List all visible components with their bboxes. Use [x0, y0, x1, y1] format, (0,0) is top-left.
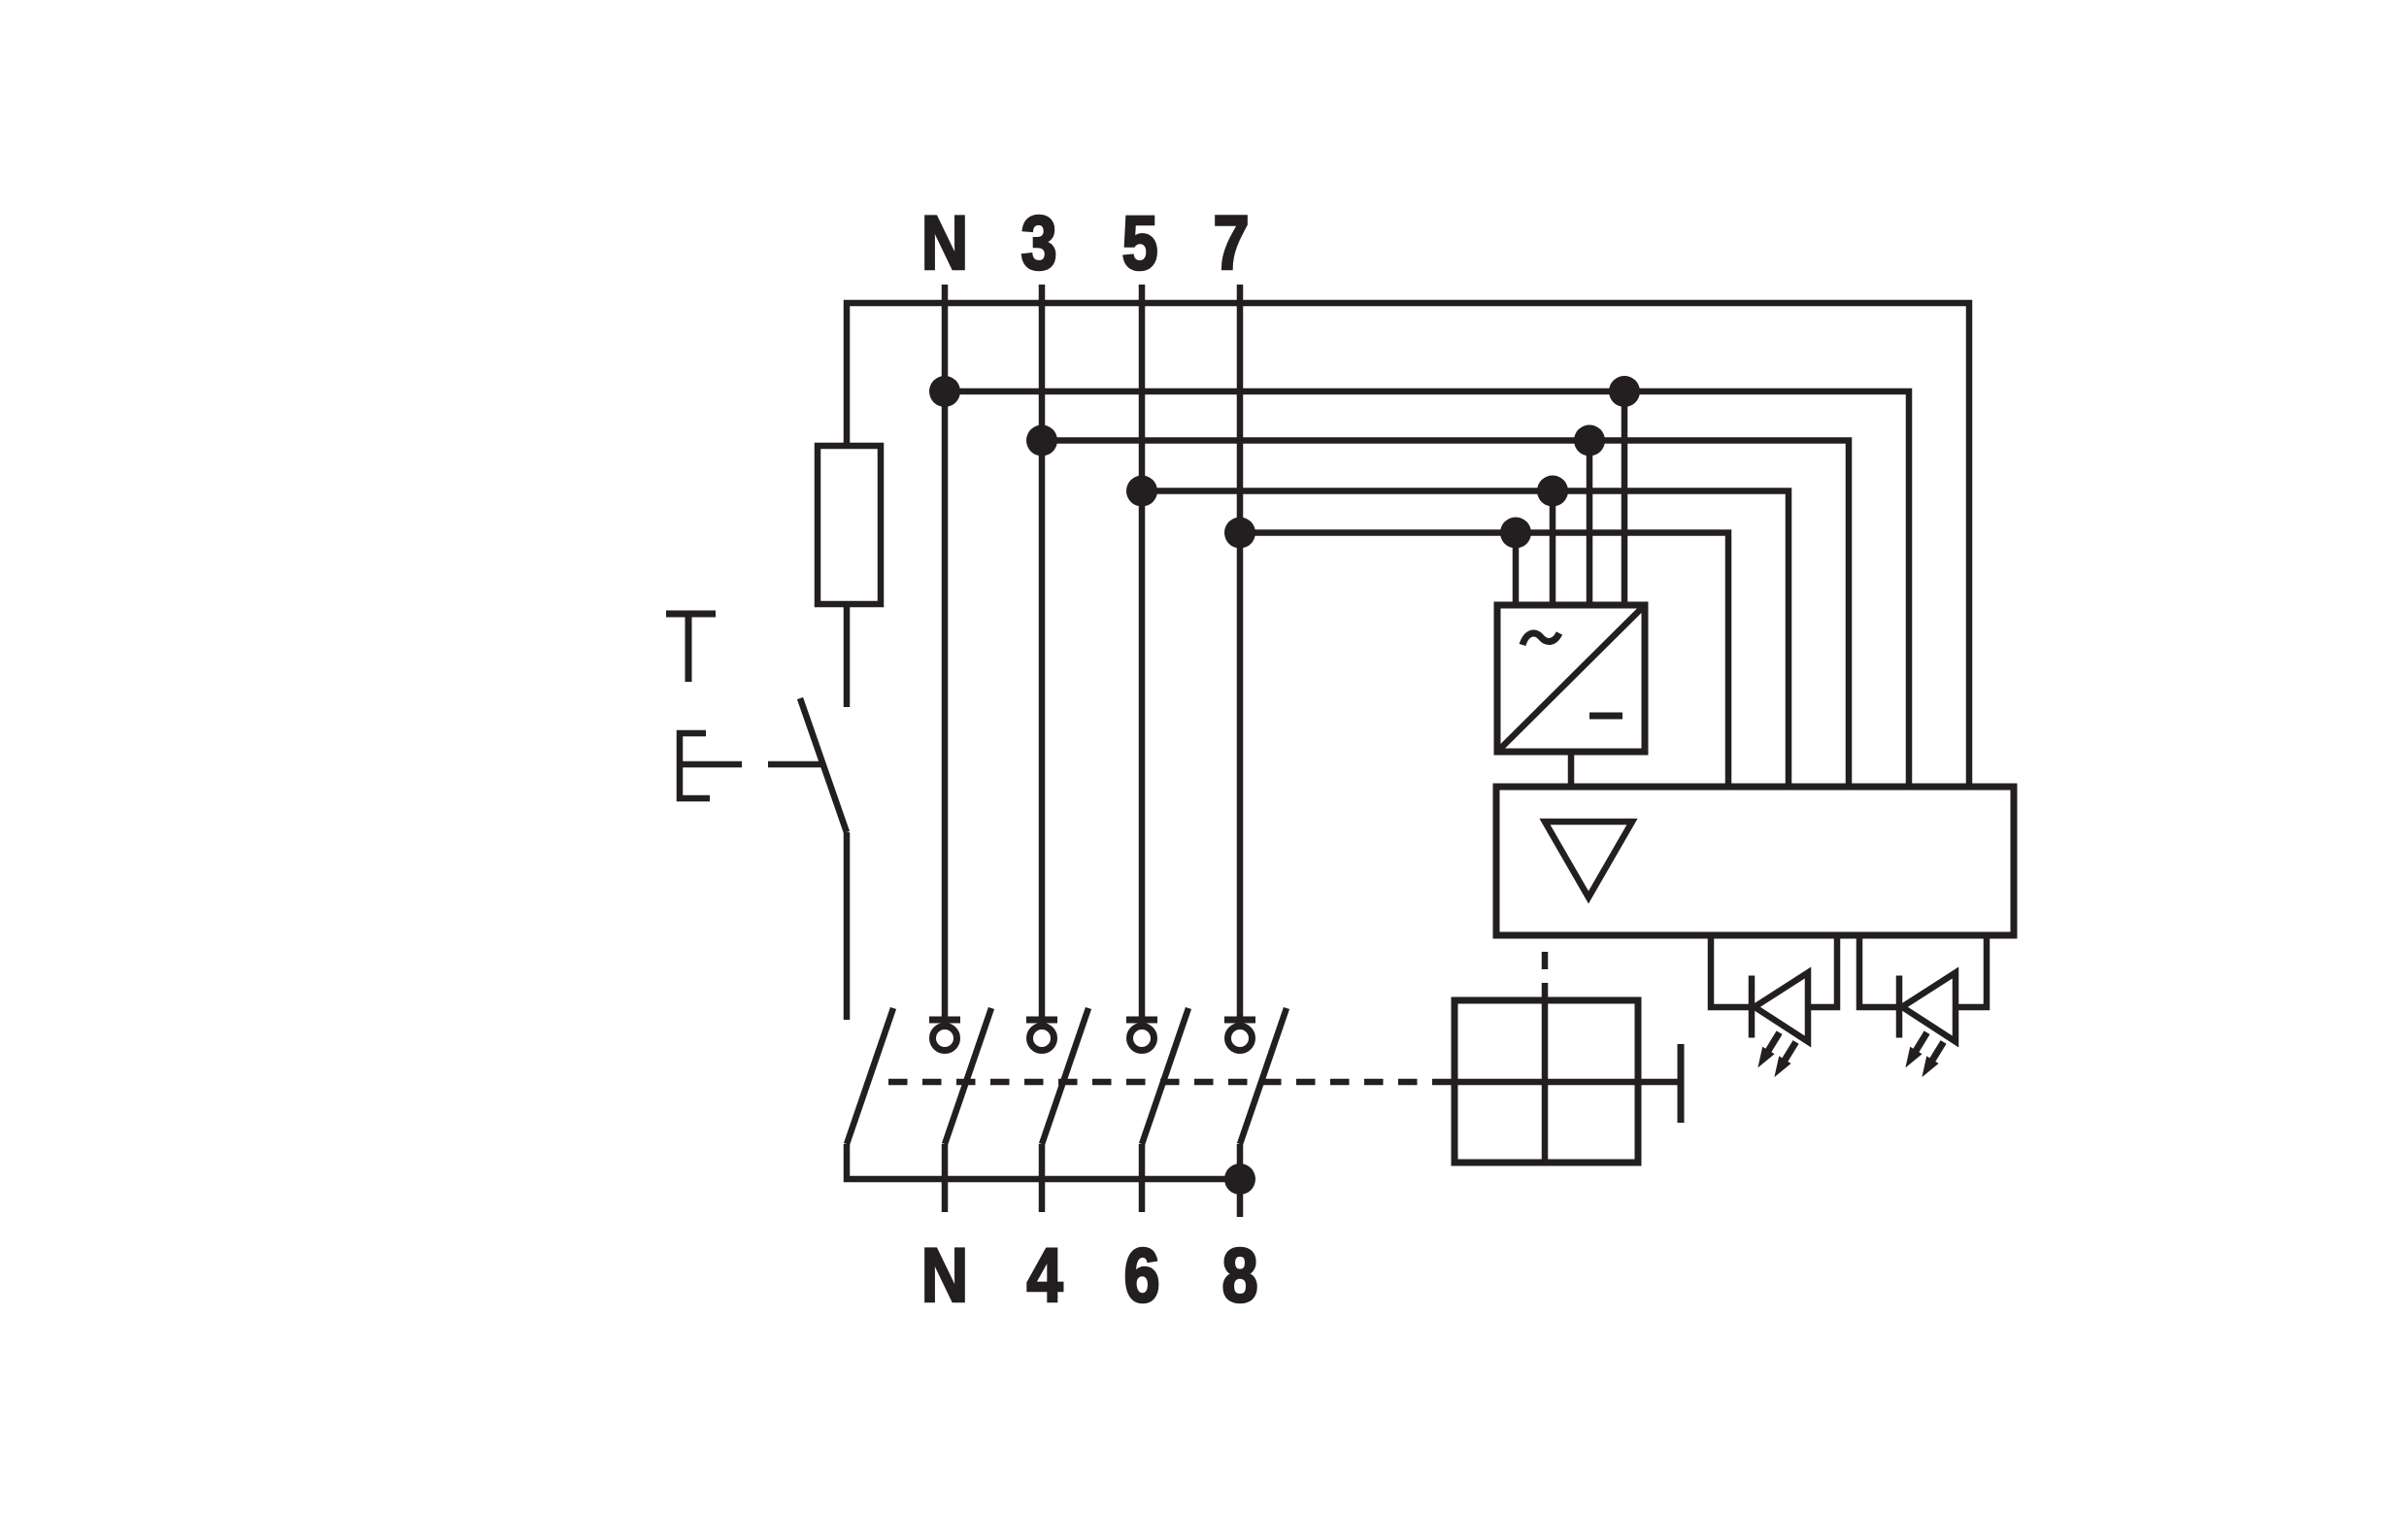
contact fixed terminal bar pole 4: [1026, 1017, 1057, 1024]
node: junction dot 3-branch to power supply tap: [1574, 425, 1605, 456]
contact terminal circle pole 6: [1130, 1027, 1154, 1051]
wire: pole 6 lower stub: [1139, 1144, 1146, 1212]
main contact: pole 8 blade: [1240, 1008, 1287, 1144]
AC symbol ~ inside power supply: [1522, 633, 1559, 645]
wire: pole 3 vertical: [1039, 285, 1046, 1020]
power supply U1 (AC/DC converter) box: [1497, 605, 1645, 752]
wire: pole 5 vertical: [1139, 285, 1146, 1020]
wire: pole 8 lower stub: [1237, 1144, 1244, 1217]
node: junction dot pole 8 bottom: [1224, 1164, 1255, 1195]
LED D2 right lead: [1955, 935, 1987, 1007]
svg-text:6: 6: [1123, 1232, 1159, 1318]
wire: tap to power supply from N branch: [1622, 391, 1628, 605]
node: junction dot 7-branch to power supply tap: [1500, 518, 1531, 549]
node: junction dot on pole 5: [1126, 476, 1157, 507]
contact terminal circle pole 8: [1228, 1027, 1253, 1051]
wire: tap to power supply from 3 branch: [1587, 441, 1593, 606]
mechanical linkage dashed line to trip coil: [888, 1079, 1439, 1086]
wire: bottom bus from test pole to pole 8 node: [847, 1144, 1240, 1179]
contact fixed terminal bar pole 8: [1224, 1017, 1255, 1024]
svg-text:4: 4: [1026, 1232, 1063, 1318]
main contact: pole 6 blade: [1142, 1008, 1188, 1144]
contact terminal circle pole N: [933, 1027, 957, 1051]
LED D2 left lead: [1859, 935, 1896, 1007]
LED D2 light arrow 1: [1905, 1032, 1926, 1067]
svg-text:3: 3: [1020, 200, 1056, 286]
trip coil horizontal divider: [1439, 1079, 1679, 1086]
wire: tap to power supply from 5 branch: [1550, 491, 1556, 606]
wire: resistor to test contact: [844, 604, 851, 707]
push-button actuator symbol: [680, 733, 710, 798]
main contact: pole 4 blade: [1042, 1008, 1088, 1144]
svg-text:N: N: [921, 200, 968, 286]
wire: branch from node 7 to amplifier: [1240, 533, 1728, 788]
wire: pole N vertical: [942, 285, 949, 1020]
LED D1 light arrow 2: [1774, 1042, 1795, 1077]
wire: branch from node N to amplifier: [945, 391, 1909, 787]
LED D1 triangle: [1755, 973, 1808, 1042]
contact fixed terminal bar pole 6: [1126, 1017, 1157, 1024]
wire: branch from node 3 to amplifier: [1042, 441, 1849, 788]
wire: pole 4 lower stub: [1039, 1144, 1046, 1212]
wire: power supply output to amplifier: [1568, 752, 1575, 787]
wire: test contact to main contact block: [844, 832, 851, 1020]
LED D2 cathode bar: [1896, 976, 1903, 1038]
svg-text:7: 7: [1213, 200, 1249, 286]
main contact: test pole blade: [847, 1008, 893, 1144]
LED D2 light arrow 2: [1922, 1042, 1943, 1077]
node: junction dot on pole N: [929, 376, 960, 407]
DC symbol - inside power supply: [1589, 713, 1622, 720]
power supply diagonal divider: [1497, 605, 1645, 752]
amplifier triangle symbol: [1545, 822, 1632, 897]
contact fixed terminal bar pole N: [929, 1017, 960, 1024]
trip coil K (square): [1455, 1000, 1638, 1163]
amplifier A1 (trip unit) box: [1496, 787, 2014, 935]
node: junction dot 5-branch to power supply tap: [1537, 476, 1568, 507]
wire: pole 7 vertical: [1237, 285, 1244, 1020]
mechanical link: actuator to test blade (dashed): [680, 761, 823, 768]
LED D1 left lead: [1711, 935, 1749, 1007]
wire: pole N lower stub: [942, 1144, 949, 1212]
label T (test button): [666, 614, 716, 682]
wire: top rail from test branch to right-side drop: [847, 303, 1969, 787]
node: junction dot on pole 3: [1026, 425, 1057, 456]
resistor R (test resistor): [818, 446, 881, 604]
contact terminal circle pole 4: [1030, 1027, 1054, 1051]
LED D1 light arrow 1: [1757, 1032, 1779, 1067]
node: junction dot on pole 7: [1224, 518, 1255, 549]
svg-text:8: 8: [1221, 1232, 1257, 1318]
trip coil vertical divider: [1542, 983, 1549, 1163]
svg-text:N: N: [921, 1232, 968, 1318]
svg-text:5: 5: [1121, 200, 1157, 286]
mechanical linkage dashed vertical from amplifier: [1542, 952, 1549, 969]
wire: tap to power supply from 7 branch: [1513, 533, 1520, 606]
LED D1 right lead: [1807, 935, 1837, 1007]
switch contact: test button contact blade: [800, 698, 847, 832]
LED D1 cathode bar: [1749, 976, 1756, 1038]
node: junction dot N-branch to power supply tap: [1609, 376, 1640, 407]
wire: branch from node 5 to amplifier: [1142, 491, 1789, 788]
trip coil armature T-bar: [1678, 1044, 1685, 1123]
LED D2 triangle: [1902, 973, 1956, 1042]
main contact: pole N blade: [945, 1008, 991, 1144]
